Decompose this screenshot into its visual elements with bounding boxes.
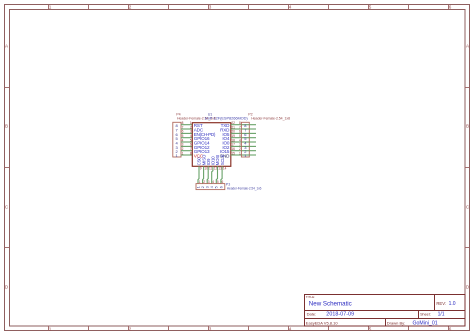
U1 right pin numbers on pins: [231, 121, 235, 155]
border tick marks right: [465, 88, 470, 248]
U1 left pin numbers on pins: [190, 121, 192, 155]
svg-text:2: 2: [201, 186, 205, 188]
svg-text:Drawn By:: Drawn By:: [387, 320, 405, 325]
svg-text:6: 6: [449, 5, 452, 10]
module U1 body: [192, 123, 231, 167]
svg-text:Date:: Date:: [307, 312, 317, 317]
svg-text:ESP-12F(ESP8266MOD): ESP-12F(ESP8266MOD): [205, 116, 249, 121]
connector P2 body: [241, 122, 249, 157]
svg-text:6: 6: [219, 186, 223, 188]
svg-text:New Schematic: New Schematic: [309, 301, 352, 308]
border column numbers bottom: [49, 327, 452, 332]
svg-text:15: 15: [231, 151, 235, 155]
svg-text:18: 18: [231, 138, 235, 142]
svg-text:4: 4: [182, 138, 184, 142]
svg-text:13: 13: [218, 166, 222, 170]
svg-text:10: 10: [204, 166, 208, 170]
svg-text:1/1: 1/1: [438, 312, 445, 318]
svg-text:2: 2: [129, 5, 132, 10]
svg-text:4: 4: [210, 186, 214, 188]
svg-text:1: 1: [49, 327, 52, 332]
svg-text:14: 14: [223, 166, 227, 170]
connector P3 pin names 1..6 (vertical): [196, 186, 223, 188]
connector P2 pin names 8..1: [244, 123, 247, 158]
connector P2 right pin stubs: [249, 125, 256, 155]
connector P3 body: [196, 184, 225, 190]
wires U1 bottom pins to P3: [198, 166, 222, 183]
svg-text:B: B: [466, 124, 469, 129]
svg-text:5: 5: [369, 5, 372, 10]
svg-text:8: 8: [190, 151, 192, 155]
svg-text:4: 4: [289, 5, 292, 10]
svg-text:2: 2: [190, 125, 192, 129]
svg-text:12: 12: [214, 166, 218, 170]
svg-text:TITLE:: TITLE:: [306, 295, 315, 299]
border row letters left: [5, 44, 9, 290]
svg-text:21: 21: [231, 125, 235, 129]
border tick marks left: [5, 88, 10, 248]
svg-text:1: 1: [182, 151, 184, 155]
svg-text:7: 7: [182, 125, 184, 129]
U1 bottom pin numbers on pins: [200, 166, 227, 170]
svg-text:EasyEDA V5.8.10: EasyEDA V5.8.10: [306, 320, 339, 325]
wires P4 to U1 (8 pins): [181, 125, 192, 155]
connector P4 pin names 8..1: [175, 123, 178, 158]
title block outline: [305, 295, 466, 327]
svg-text:REV:: REV:: [436, 301, 446, 306]
svg-text:4: 4: [239, 138, 241, 142]
svg-text:5: 5: [369, 327, 372, 332]
svg-text:Header-Female-2.54_1x8: Header-Female-2.54_1x8: [251, 117, 290, 121]
svg-text:Header-Female-2.54_1x6: Header-Female-2.54_1x6: [227, 186, 262, 190]
border column numbers top: [49, 5, 452, 10]
svg-text:2018-07-09: 2018-07-09: [326, 312, 354, 318]
border tick marks bottom: [49, 326, 449, 331]
svg-text:7: 7: [239, 125, 241, 129]
border row letters right: [466, 44, 470, 290]
svg-text:1: 1: [196, 186, 200, 188]
connector P4 body: [173, 122, 181, 157]
svg-text:2: 2: [129, 327, 132, 332]
svg-text:3: 3: [209, 327, 212, 332]
P2 pin numbers on pins: [239, 121, 241, 155]
svg-text:11: 11: [209, 166, 213, 170]
svg-text:GoMini_01: GoMini_01: [413, 321, 438, 327]
U1 bottom pin names CS0 MISO IO9 IO10 MOSI SCLK (vertical): [197, 154, 225, 165]
svg-text:1: 1: [239, 151, 241, 155]
svg-text:5: 5: [190, 138, 192, 142]
svg-text:9: 9: [200, 166, 202, 170]
svg-text:SCLK: SCLK: [220, 154, 225, 165]
P4 pin numbers on pins: [182, 121, 184, 155]
svg-text:3: 3: [206, 186, 210, 188]
U1 left pin names: [194, 123, 216, 154]
P3 pin numbers on pins: [199, 180, 224, 184]
svg-text:4: 4: [289, 327, 292, 332]
border tick marks top: [49, 5, 449, 10]
U1 right pin names: [220, 123, 230, 154]
svg-text:1: 1: [49, 5, 52, 10]
svg-text:6: 6: [449, 327, 452, 332]
connector P2 pin lines through body: [241, 125, 249, 155]
wires U1 to P2 (8 pins): [231, 125, 242, 155]
svg-text:1.0: 1.0: [449, 301, 456, 307]
svg-text:3: 3: [209, 5, 212, 10]
svg-text:5: 5: [215, 186, 219, 188]
svg-text:Sheet:: Sheet:: [420, 313, 431, 317]
svg-text:B: B: [5, 124, 8, 129]
